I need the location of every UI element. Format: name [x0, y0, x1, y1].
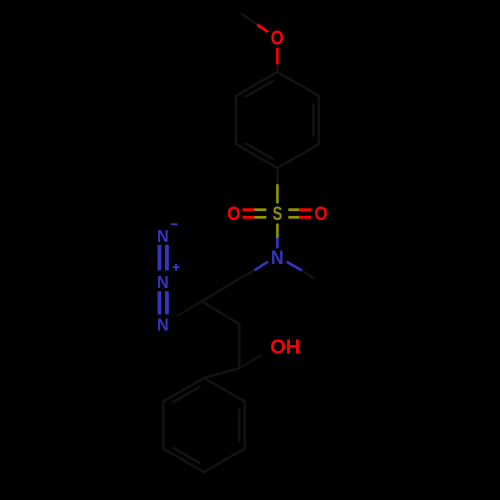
- wire: N-CH3 bond (C half gray): [302, 270, 315, 278]
- wire: COH-OH bond (dark): [239, 355, 262, 368]
- svg-text:N: N: [271, 246, 284, 268]
- wire: ring-S bond (S half, olive): [276, 184, 279, 203]
- wire: methoxy CH3-O bond (O half, red): [257, 25, 268, 32]
- wire: O-ring bond (O half, red): [276, 48, 279, 65]
- wire: CH-CH2b bond gray: [202, 301, 240, 324]
- svg-text:N: N: [157, 315, 169, 335]
- wire: O-ring bond (C half, gray): [276, 64, 278, 72]
- wire: CH2-CH bond gray: [202, 279, 240, 302]
- svg-text:N: N: [157, 226, 169, 246]
- svg-text:S: S: [273, 203, 283, 224]
- svg-text:OH: OH: [270, 337, 300, 359]
- wire: N-CH3 bond (N half blue): [287, 262, 302, 271]
- svg-text:O: O: [314, 202, 327, 224]
- node benzene ring 2 (phenyl): [163, 378, 244, 472]
- wire: CH2b-COH bond gray: [238, 324, 240, 368]
- wire: azide N=N lower double bond: [159, 291, 167, 314]
- wire: CH-N3 bond (dark, stereo): [177, 301, 202, 316]
- wire: N-CH2 bond (N half blue): [255, 262, 268, 271]
- svg-text:O: O: [271, 26, 284, 49]
- svg-text:N: N: [157, 272, 169, 292]
- wire: N-CH2 bond (C half gray): [239, 270, 254, 279]
- wire: ring-S bond (C half, gray): [276, 168, 278, 184]
- wire: S-N bond (S half olive, N half blue): [276, 224, 279, 239]
- wire: azide N=N upper double bond: [159, 245, 167, 271]
- wire: methoxy CH3-O bond (C half, gray): [241, 13, 258, 25]
- node benzene ring 1 (methoxyphenyl): [236, 72, 319, 168]
- wire: S=O left double bond: [243, 210, 267, 218]
- node minus charge: [171, 223, 178, 225]
- node plus charge: [173, 264, 180, 271]
- wire: S=O right double bond: [288, 210, 311, 218]
- wire: COH-phenyl bond gray: [204, 368, 239, 378]
- svg-text:O: O: [227, 202, 240, 224]
